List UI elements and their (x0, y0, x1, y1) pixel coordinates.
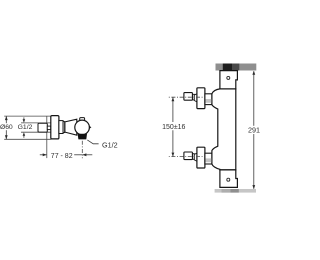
dim line G1/2 outside arrows (23, 117, 25, 119)
top connector: hex nut (205, 94, 212, 105)
escutcheon flange (side view of Ø60) (51, 116, 59, 139)
leader line to G1/2 outlet label (87, 140, 98, 144)
bottom connector: nut (184, 152, 193, 160)
handle head (circle) (75, 120, 90, 135)
dim 150±16 vertical line with arrows (172, 97, 174, 122)
bottom connector: olive cone (194, 153, 197, 161)
nut behind body (59, 121, 63, 134)
washer (63, 122, 65, 133)
outlet centerline (dash-dot) (81, 141, 83, 159)
svg-text:77 - 82: 77 - 82 (51, 153, 73, 160)
bar body with connector flares (212, 89, 236, 170)
top mounting plate (220, 71, 238, 89)
bottom connector centerline (dash-dot) (169, 156, 204, 158)
outlet (black) (78, 134, 87, 140)
side button tab on head (89, 126, 92, 130)
top connector: nut (184, 93, 193, 101)
top connector: flange (197, 88, 205, 109)
dim line Ø60 vertical with arrows (5, 116, 7, 123)
dim 77-82 line right arrow (83, 154, 93, 156)
top connector: olive cone (194, 94, 197, 102)
wall face line (46, 116, 48, 158)
dim 291 vertical line with arrows (253, 71, 255, 126)
top wall band black segment (223, 64, 233, 71)
svg-text:G1/2: G1/2 (102, 140, 118, 149)
top wall band dark segment (232, 64, 239, 71)
bottom plate screw hole (227, 178, 230, 181)
top plate screw hole (227, 76, 230, 79)
dim Ø60 top extension line (4, 115, 51, 117)
top connector: neck (192, 94, 194, 100)
top connector centerline (dash-dot) (169, 96, 204, 98)
dim Ø60 bottom extension line (4, 138, 51, 140)
bottom connector: neck (192, 154, 194, 160)
supply pipe (G1/2 union thread) (38, 123, 47, 132)
svg-text:G1/2: G1/2 (18, 124, 33, 131)
conical valve body (65, 119, 77, 135)
svg-text:291: 291 (248, 126, 260, 135)
svg-text:Ø60: Ø60 (0, 124, 13, 131)
dim 77-82 line left arrow (40, 154, 47, 156)
bottom wall band darker segments (222, 189, 231, 193)
dim G1/2 top extension line (21, 122, 51, 124)
thread bump between pipe and escutcheon (47, 126, 51, 130)
dim G1/2 bottom extension line (21, 131, 51, 133)
bottom mounting plate (220, 170, 238, 188)
bottom connector: flange (197, 147, 205, 168)
svg-text:150±16: 150±16 (162, 124, 185, 131)
top wall band (gray) (216, 64, 257, 71)
temperature button on top of head (80, 118, 85, 124)
bottom wall band (gray) (215, 189, 256, 193)
bottom connector: hex nut (205, 153, 212, 164)
